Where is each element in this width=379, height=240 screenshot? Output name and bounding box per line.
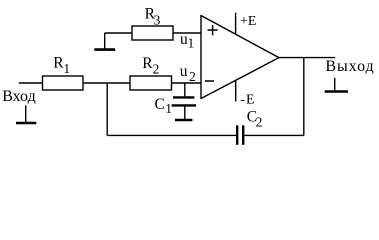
label C2: [247, 109, 263, 130]
label C1: [155, 96, 173, 116]
svg-text:Вход: Вход: [2, 88, 36, 105]
svg-text:1: 1: [188, 36, 195, 51]
wire: op-amp output: [279, 57, 335, 59]
svg-text:1: 1: [165, 101, 172, 116]
wire: input lead to R1: [19, 82, 43, 84]
node A: junction R1/R2/feedback, vertical drop to bottom wire: [106, 83, 108, 135]
label R3: [145, 6, 161, 28]
svg-text:C: C: [155, 96, 165, 113]
capacitor C1: [172, 97, 196, 105]
svg-text:u: u: [180, 63, 188, 80]
ground (below C1): [175, 119, 192, 122]
wire: C1 stub from inverting input wire: [184, 83, 186, 97]
svg-text:+E: +E: [240, 14, 256, 29]
op-amp plus sign (non-inverting input marker): [208, 25, 218, 35]
svg-text:-: -: [240, 92, 245, 107]
svg-text:3: 3: [154, 12, 161, 27]
svg-text:Выход: Выход: [325, 58, 373, 75]
wire: ground to R3: [105, 32, 132, 34]
svg-text:2: 2: [256, 114, 263, 129]
ground (top, at R3 input): [94, 33, 115, 50]
op-amp U1 triangle: [201, 16, 279, 99]
svg-text:E: E: [246, 92, 255, 107]
ground (input): [16, 105, 36, 123]
svg-text:2: 2: [153, 62, 160, 77]
label R2: [142, 55, 159, 76]
resistor R2: [130, 76, 172, 90]
op-amp minus sign (inverting input marker): [205, 80, 214, 82]
power pin -E stub: [235, 80, 237, 101]
resistor R3: [132, 26, 173, 40]
power pin +E stub: [235, 13, 237, 34]
wire: bottom feedback run (right of C2): [244, 134, 304, 136]
resistor R1: [43, 76, 84, 90]
wire: bottom feedback run (left of C2): [107, 134, 236, 136]
svg-text:2: 2: [189, 69, 196, 84]
ground (output): [325, 78, 348, 92]
wire: R1 to R2: [83, 82, 130, 84]
label R1: [53, 54, 70, 75]
node u2 label: [180, 63, 196, 84]
wire: R3 to op-amp non-inverting input: [173, 32, 202, 34]
capacitor C2: [237, 125, 243, 145]
node u1 label: [180, 31, 194, 51]
wire: feedback tap from output down: [303, 58, 305, 136]
wire: R2 to op-amp inverting input: [172, 82, 202, 84]
wire: C1 bottom stub: [184, 106, 186, 119]
svg-text:1: 1: [63, 61, 70, 76]
